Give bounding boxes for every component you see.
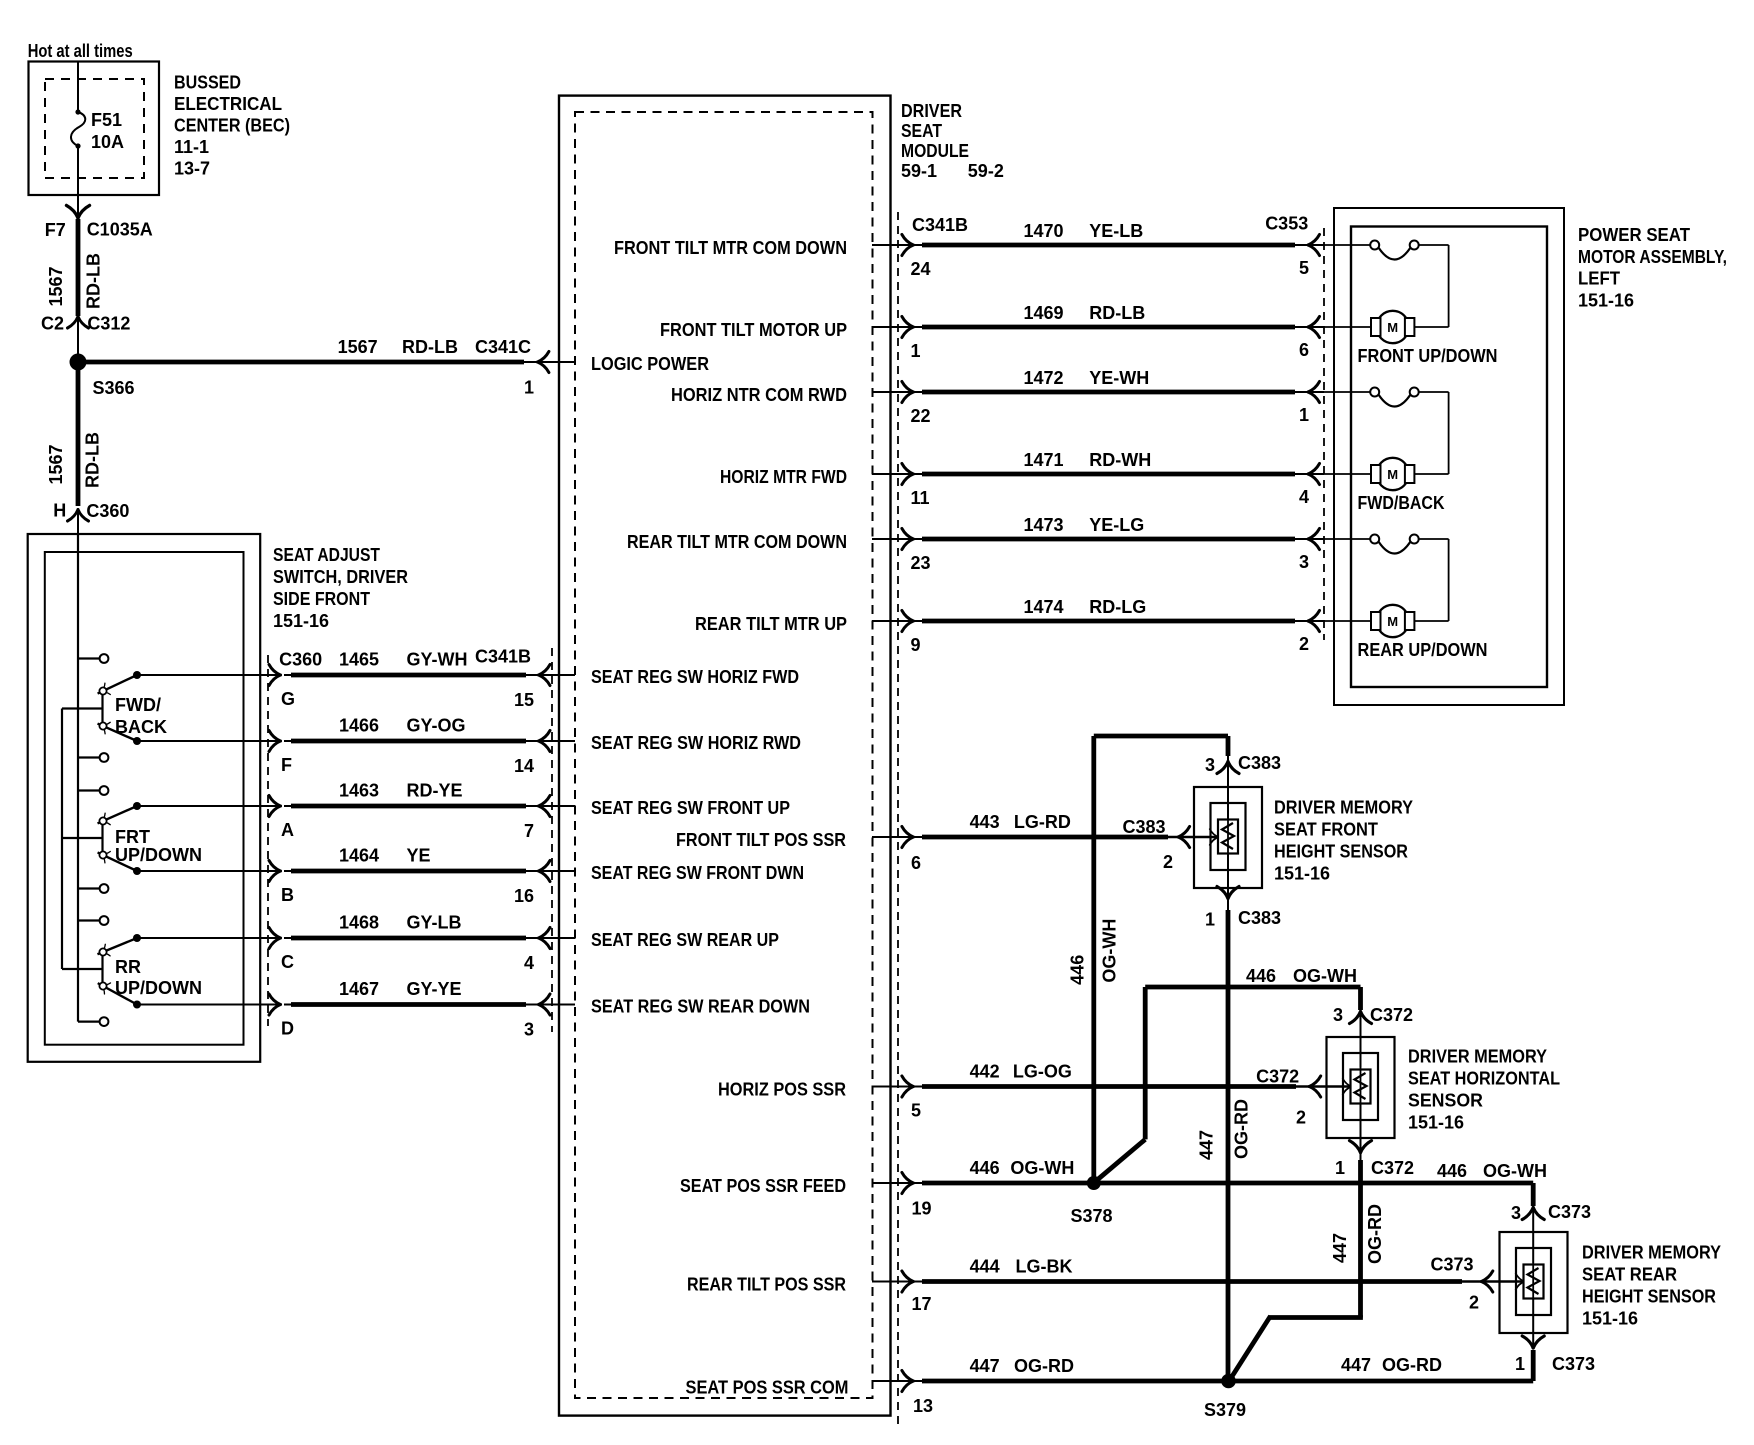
svg-text:6: 6 [1299,340,1309,360]
svg-text:447: 447 [1197,1130,1217,1160]
svg-text:5: 5 [1299,258,1309,278]
svg-text:FRT: FRT [115,827,150,847]
svg-text:DRIVER MEMORY: DRIVER MEMORY [1408,1047,1547,1067]
svg-text:C372: C372 [1371,1158,1414,1178]
svg-text:SEAT REG SW HORIZ RWD: SEAT REG SW HORIZ RWD [591,733,801,753]
svg-text:SEAT FRONT: SEAT FRONT [1274,820,1378,840]
svg-text:1: 1 [1205,910,1215,930]
svg-text:17: 17 [912,1294,932,1314]
svg-text:RD-LB: RD-LB [84,253,104,309]
svg-text:SWITCH, DRIVER: SWITCH, DRIVER [273,567,408,587]
svg-text:447: 447 [970,1356,1000,1376]
svg-text:2: 2 [1469,1293,1479,1313]
svg-text:11-1: 11-1 [174,137,209,157]
svg-text:DRIVER: DRIVER [901,101,962,121]
svg-text:1468: 1468 [339,913,379,933]
svg-text:1464: 1464 [339,846,379,866]
svg-text:DRIVER MEMORY: DRIVER MEMORY [1274,798,1413,818]
svg-text:3: 3 [524,1020,534,1040]
svg-text:M: M [1387,614,1398,629]
svg-text:C383: C383 [1238,908,1281,928]
svg-text:GY-YE: GY-YE [407,979,462,999]
svg-text:RD-LB: RD-LB [1089,303,1145,323]
svg-text:1: 1 [1299,405,1309,425]
svg-text:1: 1 [1515,1354,1525,1374]
svg-text:C341B: C341B [475,647,531,667]
svg-text:YE-LG: YE-LG [1089,515,1144,535]
svg-text:C353: C353 [1265,214,1308,234]
svg-text:YE-WH: YE-WH [1089,368,1149,388]
svg-text:1467: 1467 [339,979,379,999]
svg-text:C1035A: C1035A [87,220,153,240]
svg-text:SEAT POS SSR COM: SEAT POS SSR COM [686,1378,849,1398]
svg-text:H: H [53,501,66,521]
svg-text:RD-YE: RD-YE [407,781,463,801]
svg-text:SEAT REG SW REAR UP: SEAT REG SW REAR UP [591,930,779,950]
svg-text:446: 446 [970,1158,1000,1178]
svg-text:1463: 1463 [339,781,379,801]
svg-text:C373: C373 [1430,1255,1473,1275]
svg-text:C341B: C341B [912,215,968,235]
svg-text:1567: 1567 [338,337,378,357]
svg-text:LEFT: LEFT [1578,269,1620,289]
svg-text:1: 1 [1335,1158,1345,1178]
svg-text:1470: 1470 [1023,221,1063,241]
svg-text:F: F [281,755,292,775]
svg-text:16: 16 [514,886,534,906]
svg-text:3: 3 [1205,755,1215,775]
svg-text:444: 444 [970,1257,1000,1277]
svg-text:19: 19 [912,1199,932,1219]
svg-text:3: 3 [1333,1005,1343,1025]
svg-text:FRONT TILT POS SSR: FRONT TILT POS SSR [676,830,846,850]
svg-text:POWER SEAT: POWER SEAT [1578,225,1690,245]
svg-text:2: 2 [1163,852,1173,872]
svg-text:446: 446 [1068,955,1088,985]
svg-text:DRIVER MEMORY: DRIVER MEMORY [1582,1243,1721,1263]
svg-text:HORIZ MTR FWD: HORIZ MTR FWD [720,467,847,487]
svg-text:2: 2 [1299,634,1309,654]
svg-text:REAR TILT POS SSR: REAR TILT POS SSR [687,1275,846,1295]
svg-text:UP/DOWN: UP/DOWN [115,845,202,865]
svg-text:7: 7 [524,821,534,841]
svg-text:D: D [281,1019,294,1039]
svg-text:SEAT REG SW FRONT DWN: SEAT REG SW FRONT DWN [591,863,804,883]
svg-text:REAR TILT MTR COM DOWN: REAR TILT MTR COM DOWN [627,532,847,552]
svg-text:ELECTRICAL: ELECTRICAL [174,94,282,114]
svg-text:C: C [281,952,294,972]
svg-text:S366: S366 [93,378,135,398]
svg-text:59-1: 59-1 [901,161,937,181]
svg-text:YE-LB: YE-LB [1089,221,1143,241]
svg-text:4: 4 [524,953,534,973]
svg-text:1: 1 [524,378,534,398]
svg-text:151-16: 151-16 [1408,1113,1464,1133]
svg-text:SEAT ADJUST: SEAT ADJUST [273,545,380,565]
svg-text:C2: C2 [41,313,64,333]
svg-text:C383: C383 [1122,817,1165,837]
svg-text:GY-WH: GY-WH [407,650,468,670]
svg-text:C341C: C341C [475,337,531,357]
svg-text:23: 23 [911,553,931,573]
svg-text:OG-RD: OG-RD [1382,1355,1442,1375]
svg-text:1469: 1469 [1023,303,1063,323]
svg-text:1472: 1472 [1023,368,1063,388]
svg-text:151-16: 151-16 [1274,864,1330,884]
svg-text:A: A [281,820,294,840]
svg-text:OG-RD: OG-RD [1232,1099,1252,1159]
svg-text:HEIGHT SENSOR: HEIGHT SENSOR [1274,842,1408,862]
svg-text:REAR TILT MTR UP: REAR TILT MTR UP [695,614,847,634]
svg-text:HORIZ NTR COM RWD: HORIZ NTR COM RWD [671,385,847,405]
svg-text:M: M [1387,467,1398,482]
svg-text:447: 447 [1330,1233,1350,1263]
svg-text:FRONT TILT MTR COM DOWN: FRONT TILT MTR COM DOWN [614,238,847,258]
svg-text:13: 13 [913,1396,933,1416]
svg-text:BUSSED: BUSSED [174,73,241,93]
svg-text:6: 6 [911,853,921,873]
svg-text:1465: 1465 [339,650,379,670]
svg-text:FWD/: FWD/ [115,695,161,715]
svg-text:22: 22 [911,406,931,426]
svg-text:9: 9 [911,635,921,655]
svg-text:LG-BK: LG-BK [1016,1257,1073,1277]
svg-text:FRONT TILT MOTOR UP: FRONT TILT MOTOR UP [660,320,847,340]
svg-text:10A: 10A [91,132,124,152]
svg-text:2: 2 [1296,1108,1306,1128]
svg-text:442: 442 [970,1062,1000,1082]
svg-text:UP/DOWN: UP/DOWN [115,978,202,998]
svg-text:SEAT REG SW REAR DOWN: SEAT REG SW REAR DOWN [591,997,810,1017]
svg-text:HEIGHT SENSOR: HEIGHT SENSOR [1582,1287,1716,1307]
svg-text:CENTER (BEC): CENTER (BEC) [174,116,290,136]
svg-text:24: 24 [911,259,931,279]
svg-text:LOGIC POWER: LOGIC POWER [591,354,709,374]
svg-text:SEAT REAR: SEAT REAR [1582,1265,1677,1285]
svg-text:C373: C373 [1548,1202,1591,1222]
svg-text:C373: C373 [1552,1354,1595,1374]
svg-text:G: G [281,689,295,709]
svg-text:14: 14 [514,756,534,776]
svg-text:RD-LB: RD-LB [402,337,458,357]
svg-text:1466: 1466 [339,716,379,736]
svg-text:OG-WH: OG-WH [1483,1161,1547,1181]
svg-text:F7: F7 [45,220,66,240]
svg-text:GY-LB: GY-LB [407,913,462,933]
svg-text:C372: C372 [1370,1005,1413,1025]
svg-text:13-7: 13-7 [174,159,210,179]
svg-text:151-16: 151-16 [1582,1309,1638,1329]
svg-text:B: B [281,885,294,905]
svg-text:RR: RR [115,957,141,977]
svg-text:FWD/BACK: FWD/BACK [1358,493,1445,513]
svg-text:BACK: BACK [115,717,167,737]
svg-text:MODULE: MODULE [901,141,969,161]
svg-text:446: 446 [1437,1161,1467,1181]
svg-text:1567: 1567 [46,266,66,306]
svg-text:FRONT UP/DOWN: FRONT UP/DOWN [1358,346,1498,366]
svg-text:S378: S378 [1070,1206,1112,1226]
svg-text:151-16: 151-16 [273,611,329,631]
svg-text:11: 11 [911,488,930,508]
svg-text:Hot at all times: Hot at all times [28,41,133,61]
svg-text:HORIZ POS SSR: HORIZ POS SSR [718,1080,846,1100]
svg-text:446: 446 [1246,966,1276,986]
svg-text:1474: 1474 [1023,597,1063,617]
svg-text:C360: C360 [86,501,129,521]
svg-text:1473: 1473 [1023,515,1063,535]
svg-text:LG-OG: LG-OG [1013,1062,1072,1082]
svg-text:SIDE FRONT: SIDE FRONT [273,589,370,609]
svg-text:1567: 1567 [46,444,66,484]
svg-text:15: 15 [514,690,534,710]
svg-text:151-16: 151-16 [1578,290,1634,310]
svg-text:GY-OG: GY-OG [407,716,466,736]
svg-text:OG-RD: OG-RD [1365,1204,1385,1264]
svg-text:443: 443 [970,812,1000,832]
svg-text:OG-WH: OG-WH [1293,966,1357,986]
svg-text:1471: 1471 [1023,450,1063,470]
svg-text:S379: S379 [1204,1400,1246,1420]
svg-text:C312: C312 [87,313,130,333]
svg-text:RD-WH: RD-WH [1089,450,1151,470]
svg-text:OG-WH: OG-WH [1100,919,1120,983]
svg-text:C372: C372 [1256,1067,1299,1087]
svg-text:SENSOR: SENSOR [1408,1091,1483,1111]
svg-text:M: M [1387,320,1398,335]
svg-text:REAR UP/DOWN: REAR UP/DOWN [1358,640,1488,660]
svg-text:RD-LB: RD-LB [83,432,103,488]
svg-text:1: 1 [911,341,921,361]
svg-text:3: 3 [1299,552,1309,572]
svg-text:447: 447 [1341,1355,1371,1375]
svg-text:YE: YE [407,846,431,866]
svg-text:SEAT POS SSR FEED: SEAT POS SSR FEED [680,1176,846,1196]
svg-text:C383: C383 [1238,753,1281,773]
svg-text:4: 4 [1299,487,1309,507]
svg-text:5: 5 [911,1101,921,1121]
svg-text:LG-RD: LG-RD [1014,812,1071,832]
svg-text:SEAT REG SW HORIZ FWD: SEAT REG SW HORIZ FWD [591,667,799,687]
svg-text:59-2: 59-2 [968,161,1004,181]
svg-text:OG-RD: OG-RD [1014,1356,1074,1376]
svg-text:3: 3 [1511,1203,1521,1223]
svg-text:SEAT REG SW FRONT UP: SEAT REG SW FRONT UP [591,798,790,818]
svg-text:F51: F51 [91,110,122,130]
svg-text:C360: C360 [279,649,322,669]
svg-text:OG-WH: OG-WH [1010,1158,1074,1178]
svg-text:SEAT HORIZONTAL: SEAT HORIZONTAL [1408,1069,1560,1089]
svg-text:SEAT: SEAT [901,121,942,141]
svg-text:MOTOR ASSEMBLY,: MOTOR ASSEMBLY, [1578,247,1727,267]
svg-text:RD-LG: RD-LG [1089,597,1146,617]
